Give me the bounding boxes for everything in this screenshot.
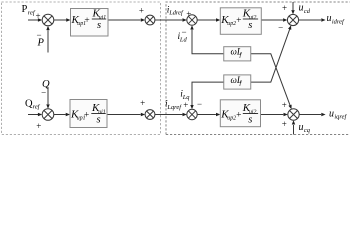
svg-text:P: P bbox=[22, 4, 28, 15]
svg-text:u: u bbox=[299, 122, 304, 133]
svg-text:Ldref: Ldref bbox=[168, 10, 184, 17]
svg-text:+: + bbox=[183, 100, 188, 110]
svg-text:iqref: iqref bbox=[334, 114, 347, 121]
svg-text:+: + bbox=[84, 16, 89, 26]
svg-text:+: + bbox=[282, 3, 287, 13]
svg-text:+: + bbox=[35, 11, 40, 21]
svg-text:+: + bbox=[282, 100, 287, 110]
svg-text:cd: cd bbox=[304, 8, 311, 15]
svg-text:Lqref: Lqref bbox=[166, 104, 182, 111]
svg-text:u: u bbox=[327, 13, 332, 24]
svg-text:P: P bbox=[37, 38, 45, 49]
svg-text:+: + bbox=[84, 111, 89, 121]
svg-text:s: s bbox=[96, 114, 100, 125]
svg-text:s: s bbox=[248, 20, 252, 31]
svg-text:s: s bbox=[248, 114, 252, 125]
svg-text:ref: ref bbox=[33, 104, 41, 111]
svg-text:u: u bbox=[329, 109, 334, 120]
svg-text:+: + bbox=[236, 16, 241, 26]
svg-text:+: + bbox=[236, 111, 241, 121]
svg-text:+: + bbox=[140, 98, 145, 108]
svg-text:s: s bbox=[97, 20, 101, 31]
svg-text:up2: up2 bbox=[227, 116, 236, 122]
svg-text:Ld: Ld bbox=[179, 36, 188, 43]
svg-text:u: u bbox=[299, 3, 304, 14]
svg-text:Lq: Lq bbox=[182, 94, 191, 101]
svg-text:+: + bbox=[186, 9, 191, 19]
svg-text:idref: idref bbox=[332, 18, 345, 25]
svg-text:cq: cq bbox=[304, 127, 311, 134]
svg-text:+: + bbox=[36, 121, 41, 131]
svg-text:−: − bbox=[41, 87, 46, 97]
svg-text:+: + bbox=[139, 6, 144, 16]
svg-text:up2: up2 bbox=[227, 21, 236, 27]
svg-text:+: + bbox=[282, 119, 287, 129]
svg-text:−: − bbox=[197, 99, 202, 109]
svg-text:−: − bbox=[278, 22, 283, 32]
